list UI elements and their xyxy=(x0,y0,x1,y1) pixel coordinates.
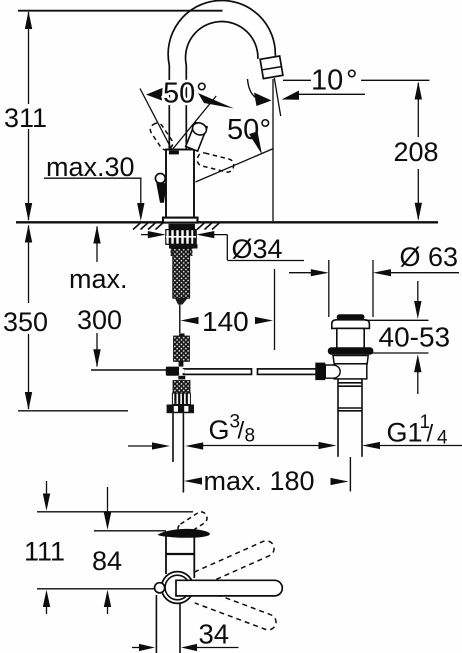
dashed lever tilted left xyxy=(148,121,175,152)
svg-text:/: / xyxy=(238,418,245,445)
dimension 350 xyxy=(28,226,30,410)
water stream vertical line xyxy=(272,79,274,221)
svg-text:max.: max. xyxy=(69,264,128,294)
drain flange xyxy=(332,320,370,329)
side body joint line xyxy=(166,553,196,555)
top reference line xyxy=(18,10,223,12)
D63 dimension xyxy=(289,272,312,274)
threaded block 3 xyxy=(173,381,190,394)
aerator xyxy=(260,56,283,79)
threaded block 2 xyxy=(174,336,190,361)
svg-text:G: G xyxy=(209,415,230,445)
dimension 84 xyxy=(107,487,109,512)
drain neck xyxy=(337,328,364,349)
tab above ball xyxy=(179,361,184,366)
drain mech housing xyxy=(334,364,367,379)
svg-text:350: 350 xyxy=(3,307,48,337)
max. 180 dimension xyxy=(184,477,202,484)
supply hoses xyxy=(172,413,174,462)
svg-text:Ø 63: Ø 63 xyxy=(400,242,459,272)
spout arc outer xyxy=(168,0,275,65)
faucet spout tube verticals xyxy=(168,65,170,150)
10 degree label and reference line xyxy=(283,79,311,81)
svg-text:111: 111 xyxy=(24,537,65,567)
ref line bottom xyxy=(37,588,155,590)
svg-text:40-53: 40-53 xyxy=(379,322,451,353)
svg-text:84: 84 xyxy=(92,546,122,576)
dim arrows for D34 xyxy=(141,234,152,236)
deck hatching right xyxy=(197,223,220,230)
drain centerline xyxy=(349,457,351,492)
rod ball joint xyxy=(166,367,179,376)
tab above block2 xyxy=(179,333,185,336)
ref line 84 xyxy=(94,530,166,532)
mounting shank threaded xyxy=(173,249,190,299)
rubber seal xyxy=(328,347,374,355)
dimension 140 xyxy=(181,317,199,324)
lever bar dashed up xyxy=(194,538,276,586)
G1 1/4 dimension xyxy=(319,442,337,449)
rod clamp white notch xyxy=(179,369,184,373)
deck hatching left xyxy=(133,223,163,230)
shank top collar xyxy=(169,224,196,230)
rod boss collar xyxy=(325,365,340,378)
pop-up rod front section xyxy=(184,369,252,375)
pivot circles xyxy=(162,572,194,604)
svg-text:G1: G1 xyxy=(387,418,423,448)
40-53 dimension xyxy=(365,319,429,321)
10 degree tilted line xyxy=(274,78,280,116)
pop-up knob xyxy=(155,174,165,184)
max300 reference line xyxy=(91,369,167,371)
50 deg (first) right ray xyxy=(172,96,216,150)
dimension max.300 xyxy=(96,227,98,367)
svg-text:34: 34 xyxy=(199,619,230,650)
drain plug cap xyxy=(337,314,365,320)
dimension 208 xyxy=(417,83,419,219)
svg-text:°: ° xyxy=(346,65,358,97)
mounting nut xyxy=(166,230,196,245)
svg-text:°: ° xyxy=(196,78,208,110)
thread bars xyxy=(172,393,190,404)
50 deg (first) left ray xyxy=(140,89,172,151)
solid lever xyxy=(185,121,208,152)
svg-text:140: 140 xyxy=(202,306,249,337)
svg-text:8: 8 xyxy=(245,425,256,446)
small knob circle xyxy=(155,583,165,593)
dashed lever horizontal right xyxy=(196,152,235,174)
svg-text:311: 311 xyxy=(4,103,47,133)
lever bar solid xyxy=(176,580,282,596)
nut bottom collar xyxy=(169,244,198,248)
swivel arc arrow xyxy=(248,79,256,98)
shank taper xyxy=(175,298,188,304)
base plate xyxy=(163,218,198,223)
faucet body xyxy=(166,150,194,219)
drain extension lines D63 xyxy=(328,260,330,317)
knob shaft wedge xyxy=(156,182,167,203)
cartridge black mark xyxy=(169,151,179,155)
opposing arrowhead of 10deg xyxy=(282,91,300,100)
supply centerline xyxy=(179,305,181,334)
side lever raised dashed xyxy=(176,510,209,537)
svg-text:°: ° xyxy=(260,114,272,146)
50 deg (first) arrowheads xyxy=(146,88,164,101)
G 3/8 dimension xyxy=(128,445,153,447)
svg-text:10: 10 xyxy=(311,65,343,97)
svg-text:4: 4 xyxy=(437,428,448,449)
tailpipe xyxy=(337,379,339,457)
350 bottom reference line xyxy=(18,410,128,412)
tab below ball xyxy=(178,376,185,380)
dimension 311 xyxy=(28,12,30,220)
pop-up rod rear section xyxy=(258,369,317,375)
svg-text:50: 50 xyxy=(163,78,195,110)
50 deg (second) arrowhead xyxy=(249,132,262,155)
shank transition xyxy=(171,249,193,257)
50 deg (second) ray xyxy=(196,149,274,183)
dimension 34 xyxy=(132,647,142,649)
svg-text:Ø34: Ø34 xyxy=(232,234,283,264)
svg-text:208: 208 xyxy=(394,137,439,167)
svg-text:max. 180: max. 180 xyxy=(204,466,315,496)
column below pivot xyxy=(155,595,157,653)
drain body xyxy=(333,356,368,364)
svg-text:300: 300 xyxy=(77,305,122,335)
deck line xyxy=(16,221,438,223)
lever bar dashed down xyxy=(195,588,278,632)
dimension 111 xyxy=(46,481,48,494)
spout arc inner xyxy=(186,22,258,66)
ref line top (111) xyxy=(37,511,193,513)
svg-text:/: / xyxy=(427,421,434,448)
rod boss black xyxy=(315,363,325,381)
side body xyxy=(165,536,167,575)
side lever closed (solid blade) xyxy=(158,529,210,538)
shank end collar xyxy=(167,405,194,414)
